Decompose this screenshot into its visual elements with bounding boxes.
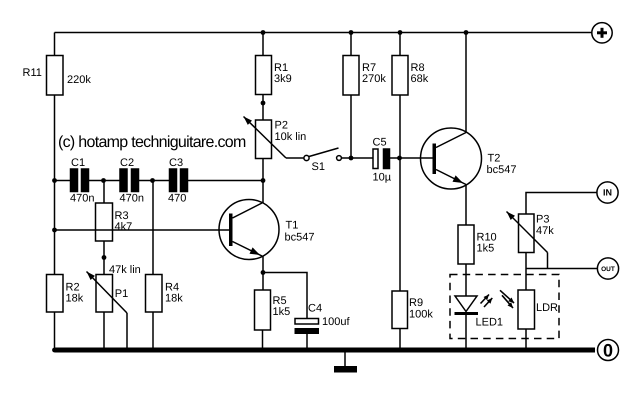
svg-text:C5: C5	[373, 137, 387, 149]
wire left rail middle segment	[54, 95, 56, 275]
wire T1 collector lead	[262, 181, 264, 203]
LED1 emission arrow 2	[484, 298, 492, 307]
LED1 emission arrow 1	[481, 295, 490, 304]
resistor R2	[47, 275, 84, 313]
wire R1 top lead	[262, 33, 264, 56]
svg-text:47k lin: 47k lin	[109, 264, 141, 276]
svg-text:4k7: 4k7	[115, 221, 133, 233]
potentiometer P1	[87, 264, 141, 313]
terminal 0	[598, 340, 619, 361]
wire emitter node to C4	[263, 273, 307, 319]
svg-text:OUT: OUT	[601, 266, 615, 273]
svg-text:1k5: 1k5	[477, 243, 495, 255]
node bus R2 junction	[52, 348, 57, 353]
node R8-R9-T2 base junction	[397, 156, 402, 161]
node C1 left junction	[52, 178, 57, 183]
transistor T2	[421, 128, 517, 189]
wire OUT line	[526, 268, 597, 270]
wire T1 emitter to R5	[262, 273, 264, 291]
wire P1 bottom lead	[103, 312, 105, 350]
wire C1 to C2	[89, 180, 121, 182]
svg-text:18k: 18k	[66, 293, 84, 305]
wire R3 top lead	[103, 181, 105, 204]
terminal OUT	[597, 258, 618, 279]
wire R9 bottom lead	[399, 329, 401, 351]
capacitor C4	[295, 303, 351, 335]
node bus P1 junction	[102, 348, 107, 353]
svg-text:0: 0	[603, 341, 613, 361]
wire R2 to ground bus	[54, 312, 56, 350]
resistor R4	[146, 275, 184, 313]
LED LED1	[455, 296, 504, 329]
svg-text:P1: P1	[115, 288, 128, 300]
svg-text:100uf: 100uf	[322, 316, 350, 328]
wire R10 to LED1	[465, 264, 467, 296]
node bus R4 junction	[150, 348, 155, 353]
terminal IN	[597, 182, 618, 203]
node bus C4 junction	[305, 348, 310, 353]
node bus P1 wiper junction	[125, 348, 130, 353]
wire C4 bottom lead	[306, 334, 308, 350]
wire left rail top segment	[54, 33, 56, 56]
wire P2 bottom lead	[262, 159, 264, 181]
node R1 supply junction	[261, 30, 266, 35]
wire T1 base line	[55, 229, 231, 231]
wire P1 wiper to bus	[126, 313, 128, 350]
wire C1 left lead	[55, 180, 71, 182]
svg-text:P2: P2	[275, 120, 288, 132]
node R1-P2 junction	[261, 101, 266, 106]
node C2-C3-R4 junction	[150, 178, 155, 183]
wire R4 top lead	[152, 181, 154, 275]
switch S1	[304, 148, 342, 173]
node bus LDR junction	[524, 348, 529, 353]
svg-text:S1: S1	[312, 161, 325, 173]
wire S1 to R7 node	[342, 157, 374, 159]
wire T1 emitter lead	[262, 257, 264, 273]
wire top supply rail	[55, 32, 592, 34]
wire R8 top lead	[399, 33, 401, 56]
wire C5 to T2 base	[390, 157, 433, 159]
svg-text:270k: 270k	[362, 73, 386, 85]
node C1-C2-R3 junction	[101, 178, 106, 183]
svg-text:10µ: 10µ	[373, 172, 392, 184]
node T1 emitter junction	[261, 270, 266, 275]
node T2 collector supply junction	[464, 30, 469, 35]
wire R7 top lead	[350, 33, 352, 56]
potentiometer P3	[507, 212, 555, 253]
wire C3 to T1 collector node	[188, 180, 264, 182]
wire LDR bottom to bus	[525, 329, 527, 350]
svg-text:18k: 18k	[165, 293, 183, 305]
wire IN lead	[526, 193, 597, 215]
node bus R5 junction	[260, 348, 265, 353]
wire R1 to P2	[262, 95, 264, 121]
svg-text:470n: 470n	[120, 193, 144, 205]
node R3-P1 junction	[102, 255, 107, 260]
node base line left junction	[52, 228, 57, 233]
svg-text:470n: 470n	[70, 193, 94, 205]
wire R4 bottom lead	[152, 312, 154, 350]
node R8 supply junction	[398, 30, 403, 35]
dashed optocoupler box	[450, 275, 559, 339]
svg-text:R11: R11	[23, 67, 42, 79]
wire C2 to C3	[139, 180, 170, 182]
transistor T1	[219, 200, 314, 260]
wire R7 bottom lead	[350, 95, 352, 158]
svg-text:C4: C4	[308, 303, 322, 315]
capacitor C3	[168, 157, 188, 205]
svg-text:bc547: bc547	[285, 232, 315, 244]
ground bus wire	[55, 348, 596, 353]
LDR illumination arrow 2	[502, 295, 513, 308]
node C3-P2-T1 collector junction	[261, 178, 266, 183]
wire P2 wiper to S1	[286, 157, 304, 159]
node bus LED1 junction	[464, 348, 469, 353]
resistor R9	[392, 291, 433, 329]
svg-text:P3: P3	[536, 214, 549, 226]
svg-text:C2: C2	[120, 157, 134, 169]
wire R8 to R9	[399, 95, 401, 291]
resistor R5	[255, 290, 291, 330]
svg-text:100k: 100k	[409, 309, 433, 321]
svg-text:R9: R9	[409, 297, 423, 309]
wire T2 emitter to R10	[465, 185, 467, 226]
svg-text:T2: T2	[488, 153, 501, 165]
node bus R9 junction	[397, 348, 402, 353]
svg-text:LDR: LDR	[536, 302, 558, 314]
svg-text:(c) hotamp techniguitare.com: (c) hotamp techniguitare.com	[58, 134, 246, 151]
resistor R3	[96, 203, 133, 241]
svg-text:T1: T1	[286, 220, 299, 232]
terminal +	[592, 23, 612, 43]
svg-text:C3: C3	[169, 157, 183, 169]
svg-text:68k: 68k	[411, 73, 429, 85]
svg-text:470: 470	[168, 193, 186, 205]
resistor R10	[458, 225, 497, 264]
svg-text:47k: 47k	[536, 225, 554, 237]
potentiometer P2	[244, 117, 307, 159]
LDR illumination arrow 1	[500, 290, 514, 303]
resistor R1	[256, 56, 292, 95]
node S1-R7 junction	[349, 156, 354, 161]
svg-text:LED1: LED1	[476, 317, 504, 329]
capacitor C5	[373, 137, 392, 184]
svg-text:220k: 220k	[67, 74, 91, 86]
resistor R7	[343, 56, 386, 96]
svg-text:3k9: 3k9	[274, 73, 292, 85]
resistor R8	[392, 56, 429, 96]
svg-text:IN: IN	[603, 188, 612, 198]
wire LED1 cathode to bus	[465, 314, 467, 351]
wire R3 bottom to P1 top	[103, 241, 105, 275]
wire P3 bottom to LDR	[525, 253, 527, 291]
svg-text:10k lin: 10k lin	[275, 131, 307, 143]
wire P3 wiper to OUT line	[547, 253, 549, 269]
resistor R11	[23, 56, 92, 96]
capacitor C2	[120, 157, 144, 205]
svg-text:bc547: bc547	[487, 164, 517, 176]
node R7 supply junction	[349, 30, 354, 35]
capacitor C1	[70, 157, 94, 205]
wire R5 bottom lead	[262, 330, 264, 350]
svg-text:1k5: 1k5	[273, 306, 291, 318]
svg-text:C1: C1	[71, 157, 85, 169]
photoresistor LDR	[518, 290, 558, 329]
ground	[334, 352, 357, 373]
wire T2 collector to supply	[465, 33, 467, 133]
